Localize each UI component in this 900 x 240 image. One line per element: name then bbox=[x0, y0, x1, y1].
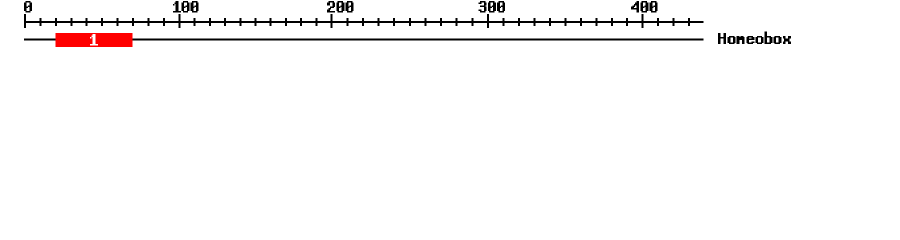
ruler axis line bbox=[24, 21, 704, 23]
ruler label 400 bbox=[631, 1, 657, 12]
ruler minor ticks every 10 residues bbox=[39, 18, 690, 26]
ruler label 300 bbox=[479, 1, 505, 12]
domain box (red) residues ~20-70 bbox=[56, 33, 133, 47]
domain name Homeobox bbox=[718, 32, 791, 44]
sequence line bbox=[24, 38, 704, 40]
ruler label 200 bbox=[327, 1, 353, 12]
ruler label 100 bbox=[173, 1, 199, 12]
ruler major ticks at 0,100,200,300,400 bbox=[24, 14, 644, 28]
domain number 1 (white) bbox=[90, 34, 98, 45]
background bbox=[0, 0, 900, 58]
ruler label 0 bbox=[24, 1, 32, 12]
